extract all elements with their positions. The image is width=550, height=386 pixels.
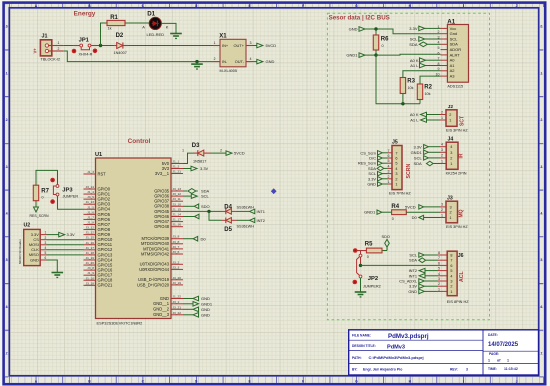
wire R3 top to A1 A2 [403,71,441,78]
svg-text:I: I [463,380,464,384]
svg-text:7: 7 [388,149,390,153]
svg-text:JP3: JP3 [62,188,73,194]
svg-text:J3_12: J3_12 [173,192,182,196]
unlabeled terminal at GPIO46 [183,216,195,218]
svg-text:10: 10 [436,73,440,77]
wire junction down to D5 row [209,211,222,220]
svg-text:GND: GND [408,289,417,294]
wire JP3 to U1 GPIO4 [58,196,84,209]
diode D3 (1N5817) [182,143,222,163]
svg-text:4: 4 [441,143,443,147]
svg-text:2: 2 [450,211,452,215]
svg-text:SDO: SDO [382,234,390,239]
svg-text:ALRT: ALRT [450,52,461,57]
wire U2 MOSI to GPIO11 [47,244,84,246]
svg-text:USB_D+/GPIO20: USB_D+/GPIO20 [137,282,170,287]
wire junction to R6 [375,29,377,35]
svg-text:A2: A2 [450,68,456,73]
svg-text:SDA: SDA [409,258,417,263]
svg-text:1: 1 [438,25,440,29]
title block [349,330,539,375]
terminal GND (2) at U1 [183,308,193,310]
svg-text:J3_10: J3_10 [173,202,182,206]
svg-text:3.3V: 3.3V [67,232,76,237]
U1 right pin stubs, numbers and names [171,163,183,165]
svg-text:J3_14: J3_14 [86,185,95,189]
connector J1 (TBLOCK-I2) [33,34,64,62]
svg-text:GND__2: GND__2 [153,307,170,312]
diode D5 (SS36LWH) [222,218,255,233]
svg-text:GND: GND [160,296,169,301]
svg-text:7: 7 [540,352,542,356]
svg-text:2: 2 [449,113,451,117]
terminal 5VCD at X1 OUT+ [253,45,257,47]
svg-text:1: 1 [441,213,443,217]
wire GPIO45 to D4/D5 junction [183,210,222,212]
svg-text:SS36LWH: SS36LWH [237,205,255,209]
svg-text:3: 3 [438,277,440,281]
svg-text:ESP32S3DEVKITC1N8R2: ESP32S3DEVKITC1N8R2 [97,321,143,326]
svg-text:JUMPER2: JUMPER2 [363,285,381,289]
svg-text:2: 2 [441,110,443,114]
svg-text:5: 5 [45,251,47,255]
svg-text:SCT: SCT [459,116,465,126]
terminal GND (3) at U1 [183,314,193,316]
svg-text:4: 4 [388,164,390,168]
svg-text:J1_22: J1_22 [173,295,182,299]
svg-text:A0 K: A0 K [410,58,419,63]
svg-text:J1_19: J1_19 [86,256,95,260]
connector J3 (EIS 3PIN HZ) [440,196,468,230]
svg-text:GPIO21: GPIO21 [98,283,114,288]
svg-text:J3_21: J3_21 [173,305,182,309]
ADC A1 (ADS1115) [436,18,469,88]
wire R3 bottom [402,94,404,104]
svg-text:EIS 7PIN HZ: EIS 7PIN HZ [389,192,411,196]
svg-text:4: 4 [250,57,252,61]
svg-text:2: 2 [441,154,443,158]
svg-text:MTMS/GPIO42: MTMS/GPIO42 [141,251,170,256]
svg-text:EIS 8PIN HZ: EIS 8PIN HZ [447,300,469,304]
svg-text:1: 1 [488,358,490,362]
svg-text:PATH:: PATH: [352,356,362,360]
svg-text:D3: D3 [192,143,200,149]
svg-text:SDA: SDA [409,42,418,47]
ground under JP2 [360,290,362,292]
ground on IN- rail [196,62,198,64]
svg-text:GND: GND [266,59,275,64]
svg-text:6: 6 [6,305,8,309]
svg-text:A1 L: A1 L [410,63,419,68]
JP1 unconnected pin dot right [93,49,98,54]
svg-text:OUT+: OUT+ [234,43,245,48]
svg-text:J5: J5 [392,140,398,146]
svg-text:1: 1 [540,71,542,75]
wire R6 bottom to GND1 junction [375,50,377,55]
svg-text:7: 7 [438,57,440,61]
terminal SCL at GPIO36 [183,195,191,197]
X1 pin 2 [214,61,221,63]
svg-text:4: 4 [450,274,452,278]
svg-text:GND1: GND1 [411,150,423,155]
svg-text:1: 1 [58,41,60,45]
svg-text:GND__3: GND__3 [153,312,170,317]
svg-text:5: 5 [438,267,440,271]
svg-text:J1_12: J1_12 [86,231,95,235]
LED D1 (LED-RED) [142,10,169,37]
terminal GND1 at U1 [183,303,193,305]
svg-text:1: 1 [441,116,443,120]
svg-text:J: J [516,380,518,384]
svg-text:3: 3 [395,172,397,176]
svg-text:J1_21: J1_21 [173,170,182,174]
svg-text:2: 2 [438,30,440,34]
junction GND1 [374,53,377,56]
J4 pin stubs and numbers [440,146,446,148]
svg-text:14/07/2025: 14/07/2025 [488,342,519,348]
svg-text:DESIGN TITLE:: DESIGN TITLE: [352,344,376,348]
svg-text:MICRO SD Reader: MICRO SD Reader [18,239,22,264]
svg-text:9: 9 [438,67,440,71]
svg-text:J1_18: J1_18 [86,251,95,255]
svg-text:J3_6: J3_6 [173,250,180,254]
svg-text:J3_3: J3_3 [173,265,180,269]
svg-text:RES_SCRN: RES_SCRN [30,214,50,218]
terminal INT2 [250,218,255,223]
connector J5 (EIS 7PIN HZ) [387,140,412,196]
svg-text:R3: R3 [407,79,415,85]
svg-text:4: 4 [450,145,452,149]
svg-text:GND1: GND1 [364,210,376,215]
svg-text:D0: D0 [412,215,418,220]
U2 pin stubs and names [40,234,46,236]
svg-text:V+: V+ [33,48,38,54]
svg-text:5: 5 [6,258,8,262]
svg-text:3: 3 [540,165,542,169]
svg-text:1: 1 [450,162,452,166]
svg-text:7: 7 [450,259,452,263]
wire U2 CS to GPIO10 [47,239,84,241]
svg-text:3: 3 [450,205,452,209]
svg-text:J1_17: J1_17 [173,218,182,222]
micro SD reader U2 [18,222,47,265]
wire JP2 bottom to ground [360,278,362,290]
svg-text:GND: GND [201,312,210,317]
svg-text:U0RXD/GPIO44: U0RXD/GPIO44 [139,267,170,272]
svg-text:J3_11: J3_11 [173,197,181,201]
microcontroller U1 (ESP32S3DEVKITC1N8R2) [84,152,184,326]
svg-text:J3_19: J3_19 [173,281,182,285]
resistor R5 [365,241,382,258]
svg-text:K: K [166,24,169,29]
X1 pin 3 [246,45,253,47]
sensor section dashed boundary [327,13,489,320]
svg-text:R6: R6 [381,36,389,42]
svg-text:J3_9: J3_9 [173,235,180,239]
svg-text:3: 3 [441,203,443,207]
J3 pin stubs and numbers [440,206,446,208]
svg-text:J1_7: J1_7 [87,215,94,219]
JP3 pin dot bottom [50,199,55,204]
svg-text:KK254 2PIN: KK254 2PIN [446,171,467,175]
J2 pin 2 [440,114,446,116]
connector J2 (EIS 3PIN HZ) [440,104,468,133]
J1 pin 1 [48,45,63,47]
wire R2 bottom [419,100,421,104]
wire GND1 to R4 [382,211,392,213]
svg-text:JUMPER: JUMPER [63,195,79,199]
svg-text:J1_5: J1_5 [87,205,94,209]
terminal INT1 [250,209,255,214]
svg-text:6: 6 [438,261,440,265]
svg-text:XHX4-R: XHX4-R [79,53,93,57]
svg-text:J1_10: J1_10 [86,276,95,280]
svg-text:GND1: GND1 [201,301,213,306]
svg-text:J1_2: J1_2 [173,165,180,169]
svg-text:8: 8 [438,62,440,66]
svg-text:3.3V: 3.3V [413,144,422,149]
svg-text:J3_1: J3_1 [173,300,180,304]
svg-text:2: 2 [540,118,542,122]
JP2 pin dot [353,280,358,285]
svg-text:R2: R2 [424,85,432,91]
svg-text:IR: IR [459,153,465,158]
svg-text:IN+: IN+ [222,43,229,48]
svg-text:3: 3 [388,170,390,174]
svg-text:4: 4 [6,212,8,216]
wire 5V0 to D3 [183,153,194,163]
svg-text:INT1: INT1 [257,209,265,214]
U1 left pin stubs, numbers and names [84,173,96,175]
wire U2 MISO to GPIO13 [47,254,84,256]
svg-text:0: 0 [540,25,542,29]
J5 pin stubs and numbers [387,152,392,154]
svg-text:6: 6 [45,256,47,260]
svg-text:J1_16: J1_16 [173,223,182,227]
J2 pin 1 [440,119,446,121]
svg-text:OUT-: OUT- [235,59,245,64]
svg-text:ADOR: ADOR [450,47,462,52]
svg-text:GND: GND [201,307,210,312]
jumper JP3 (JUMPER) [50,178,78,204]
svg-text:GND__1: GND__1 [153,301,170,306]
wire GND1 to A1 ALRT [376,53,441,56]
svg-text:SDA: SDA [450,42,459,47]
svg-text:GPIO48: GPIO48 [154,224,170,229]
svg-text:5: 5 [438,46,440,50]
svg-text:1: 1 [182,148,184,152]
wire D1 cathode to ground [162,23,177,31]
svg-text:ACL: ACL [459,271,465,282]
svg-text:1: 1 [450,290,452,294]
svg-text:A: A [142,24,145,29]
wire GND1 rail down to resistor bottoms [376,55,420,104]
svg-text:3V3__1: 3V3__1 [155,171,170,176]
J6 pin stubs and numbers [437,254,447,256]
X1 pin 1 [214,45,221,47]
diode D4 (SS36LWH) [222,205,255,215]
svg-text:FILE NAME:: FILE NAME: [352,334,371,338]
resistor R1 [107,15,125,31]
svg-text:1: 1 [507,358,509,362]
resistor R2 [417,84,432,100]
svg-text:GND1: GND1 [346,53,358,58]
svg-text:R5: R5 [365,241,373,247]
svg-text:J3_18: J3_18 [86,281,95,285]
svg-text:SCL: SCL [201,194,210,199]
svg-text:0: 0 [42,196,44,200]
svg-text:5VCD: 5VCD [405,205,416,210]
svg-text:F: F [302,380,304,384]
terminal 3.3V at U2 [47,234,59,236]
svg-text:RST: RST [98,171,107,176]
svg-text:2: 2 [388,175,390,179]
svg-text:1: 1 [449,119,451,123]
svg-text:5VCD: 5VCD [266,43,277,48]
resistor R7 [33,185,49,201]
svg-text:1N5817: 1N5817 [193,159,206,163]
JP1 unconnected pin dot left [72,49,77,54]
X1 pin 4 [246,61,253,63]
svg-text:PdMv3: PdMv3 [387,345,405,351]
wire D5 to INT2 [237,219,250,221]
junction JP2 tap [359,264,362,267]
svg-text:SCL: SCL [450,36,459,41]
wire D4 to INT1 [237,210,250,212]
JP3 pin dot top [50,178,55,183]
svg-text:1: 1 [45,231,47,235]
svg-text:MQ: MQ [458,209,464,217]
resistor R6 [373,35,389,50]
svg-text:3: 3 [45,241,47,245]
svg-text:R4: R4 [391,204,399,210]
junction at D4/D5 split [207,210,210,213]
svg-text:J1_9: J1_9 [87,271,94,275]
svg-text:IN-: IN- [222,59,228,64]
svg-text:X1: X1 [219,33,227,39]
jumper JP2 (JUMPER2) [353,251,381,289]
svg-text:J3_7: J3_7 [173,245,180,249]
svg-text:1: 1 [441,159,443,163]
svg-text:J3_22: J3_22 [173,311,182,315]
svg-text:6: 6 [450,264,452,268]
svg-text:5: 5 [395,162,397,166]
svg-text:GND: GND [30,257,39,262]
svg-text:F: F [302,4,304,8]
svg-text:J1_20: J1_20 [86,261,95,265]
terminal RES_SCRN [34,207,39,212]
svg-text:1N4007: 1N4007 [114,51,127,55]
svg-text:J1_6: J1_6 [87,210,94,214]
wire junction up to R1 [101,23,108,46]
svg-text:INT2: INT2 [257,218,265,223]
svg-text:JP1: JP1 [79,38,90,44]
svg-text:A1: A1 [450,63,456,68]
svg-text:5: 5 [388,159,390,163]
jumper JP1 (XHX4-R) [72,38,98,57]
svg-text:G: G [355,380,358,384]
terminal 5VCD at D3 [211,152,227,154]
svg-text:PdMv3.pdsprj: PdMv3.pdsprj [388,333,429,340]
svg-text:3: 3 [466,368,468,372]
svg-text:0: 0 [382,44,384,48]
wire R2 top to A1 A3 [420,76,441,84]
svg-text:2: 2 [450,285,452,289]
svg-text:2: 2 [220,148,222,152]
svg-text:LED-RED: LED-RED [147,32,165,37]
svg-text:6: 6 [438,51,440,55]
svg-text:D5: D5 [224,227,232,233]
connector J6 (EIS 8PIN HZ) [437,251,469,304]
svg-text:5VCD: 5VCD [234,151,245,156]
wire GND to A1 Gnd [365,28,376,30]
svg-text:2: 2 [6,118,8,122]
terminal 3.3V at U1 3V3 [183,168,191,170]
wire D2 to X1 IN+ [129,45,214,47]
svg-text:1: 1 [6,71,8,75]
svg-text:3: 3 [250,41,252,45]
svg-text:4: 4 [438,41,440,45]
svg-text:SCL: SCL [410,37,419,42]
svg-text:3: 3 [6,165,8,169]
svg-text:Gnd: Gnd [450,31,458,36]
svg-text:3: 3 [441,148,443,152]
svg-text:Vcc: Vcc [450,26,457,31]
svg-text:2: 2 [58,47,60,51]
wire SDO to R5 [386,247,388,251]
svg-text:ADS1115: ADS1115 [447,85,463,89]
junction R3 bottom [401,102,404,105]
A1 pin stubs, numbers and names [441,27,448,29]
resistor R4 [391,204,406,221]
svg-text:DATE:: DATE: [488,333,498,337]
terminal D0 at MTCK/GPIO39 [183,238,193,240]
svg-text:J3_2: J3_2 [173,260,180,264]
svg-text:A1 L: A1 L [410,118,419,123]
svg-text:7: 7 [6,352,8,356]
terminal GND at X1 OUT- [253,61,257,63]
svg-text:REV:: REV: [450,368,458,372]
resistor R3 [400,78,415,94]
origin marker diamond [271,188,277,194]
svg-text:1: 1 [450,216,452,220]
svg-text:J3_20: J3_20 [173,276,182,280]
wire R4 to J3 pin 2 [406,211,440,213]
svg-text:3: 3 [450,280,452,284]
svg-text:4: 4 [540,212,542,216]
svg-text:U1: U1 [95,152,102,158]
svg-text:8: 8 [438,251,440,255]
svg-text:5: 5 [450,269,452,273]
svg-text:5: 5 [540,258,542,262]
svg-text:G: G [355,4,358,8]
svg-text:Control: Control [128,138,151,145]
svg-text:J1_13: J1_13 [86,200,95,204]
svg-text:Energy: Energy [74,11,96,18]
svg-text:J3_8: J3_8 [173,240,180,244]
svg-text:GND: GND [349,27,358,32]
svg-text:4: 4 [395,167,397,171]
terminal GND at U1 [183,298,193,300]
svg-text:6: 6 [540,305,542,309]
svg-text:A0: A0 [450,58,456,63]
wire U2 GND down to ground [47,260,58,270]
wire R7 top to JP3 [36,170,58,185]
svg-text:J2: J2 [448,104,454,110]
terminal SDA at GPIO35 [183,190,187,192]
svg-text:EIS 3PIN HZ: EIS 3PIN HZ [446,129,468,133]
svg-text:J1_14: J1_14 [173,213,182,217]
